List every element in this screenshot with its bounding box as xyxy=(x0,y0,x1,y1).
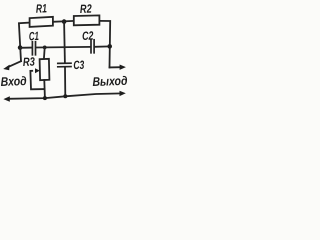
output terminal arrowhead (lower, on bottom rail) xyxy=(120,91,126,96)
wire output arrow line xyxy=(110,66,121,68)
wire top-left segment and left rail xyxy=(19,23,30,62)
resistor R3 (adjustable) xyxy=(40,59,50,80)
node left rail (input node) xyxy=(18,45,23,50)
wire C3 to bottom rail xyxy=(64,68,66,97)
node bottom R3 junction xyxy=(43,96,47,100)
svg-text:C2: C2 xyxy=(82,29,94,43)
wire R1 to R2 xyxy=(53,20,74,23)
input terminal arrowhead (lower, on bottom rail) xyxy=(3,96,9,101)
R3 wiper arrowhead xyxy=(35,68,40,73)
node bottom C3 junction xyxy=(63,94,67,98)
output terminal arrowhead (upper) xyxy=(120,65,126,70)
svg-text:Вход: Вход xyxy=(0,74,27,89)
resistor R2 xyxy=(74,15,100,25)
wire C2 to right rail xyxy=(95,45,110,47)
svg-text:R2: R2 xyxy=(80,2,93,16)
svg-text:R3: R3 xyxy=(23,55,36,69)
wire center vertical (crosses middle wire, no junction) xyxy=(63,22,66,63)
input terminal arrowhead (upper) xyxy=(3,65,9,71)
svg-text:C3: C3 xyxy=(73,58,85,72)
svg-text:C1: C1 xyxy=(29,29,40,43)
capacitor C3 xyxy=(58,63,71,67)
wire bottom rail xyxy=(8,93,122,98)
node right rail (output node) xyxy=(107,44,112,49)
resistor R1 xyxy=(30,17,53,27)
capacitor C1 xyxy=(32,42,35,55)
wire middle left xyxy=(20,47,32,49)
node junction top (R1-R2) xyxy=(62,19,67,24)
wire R3 top stub xyxy=(43,47,46,59)
wire input arrow line xyxy=(8,61,21,67)
svg-text:Выход: Выход xyxy=(92,74,128,89)
wire R2 to top-right corner and right rail xyxy=(99,21,110,68)
wire C1 to C2 xyxy=(36,46,90,49)
capacitor C2 xyxy=(91,40,94,53)
wire R3 wiper return xyxy=(30,71,44,90)
node R3 tap xyxy=(43,46,47,50)
wire R3 bottom stub xyxy=(43,80,46,98)
svg-text:R1: R1 xyxy=(36,1,48,15)
